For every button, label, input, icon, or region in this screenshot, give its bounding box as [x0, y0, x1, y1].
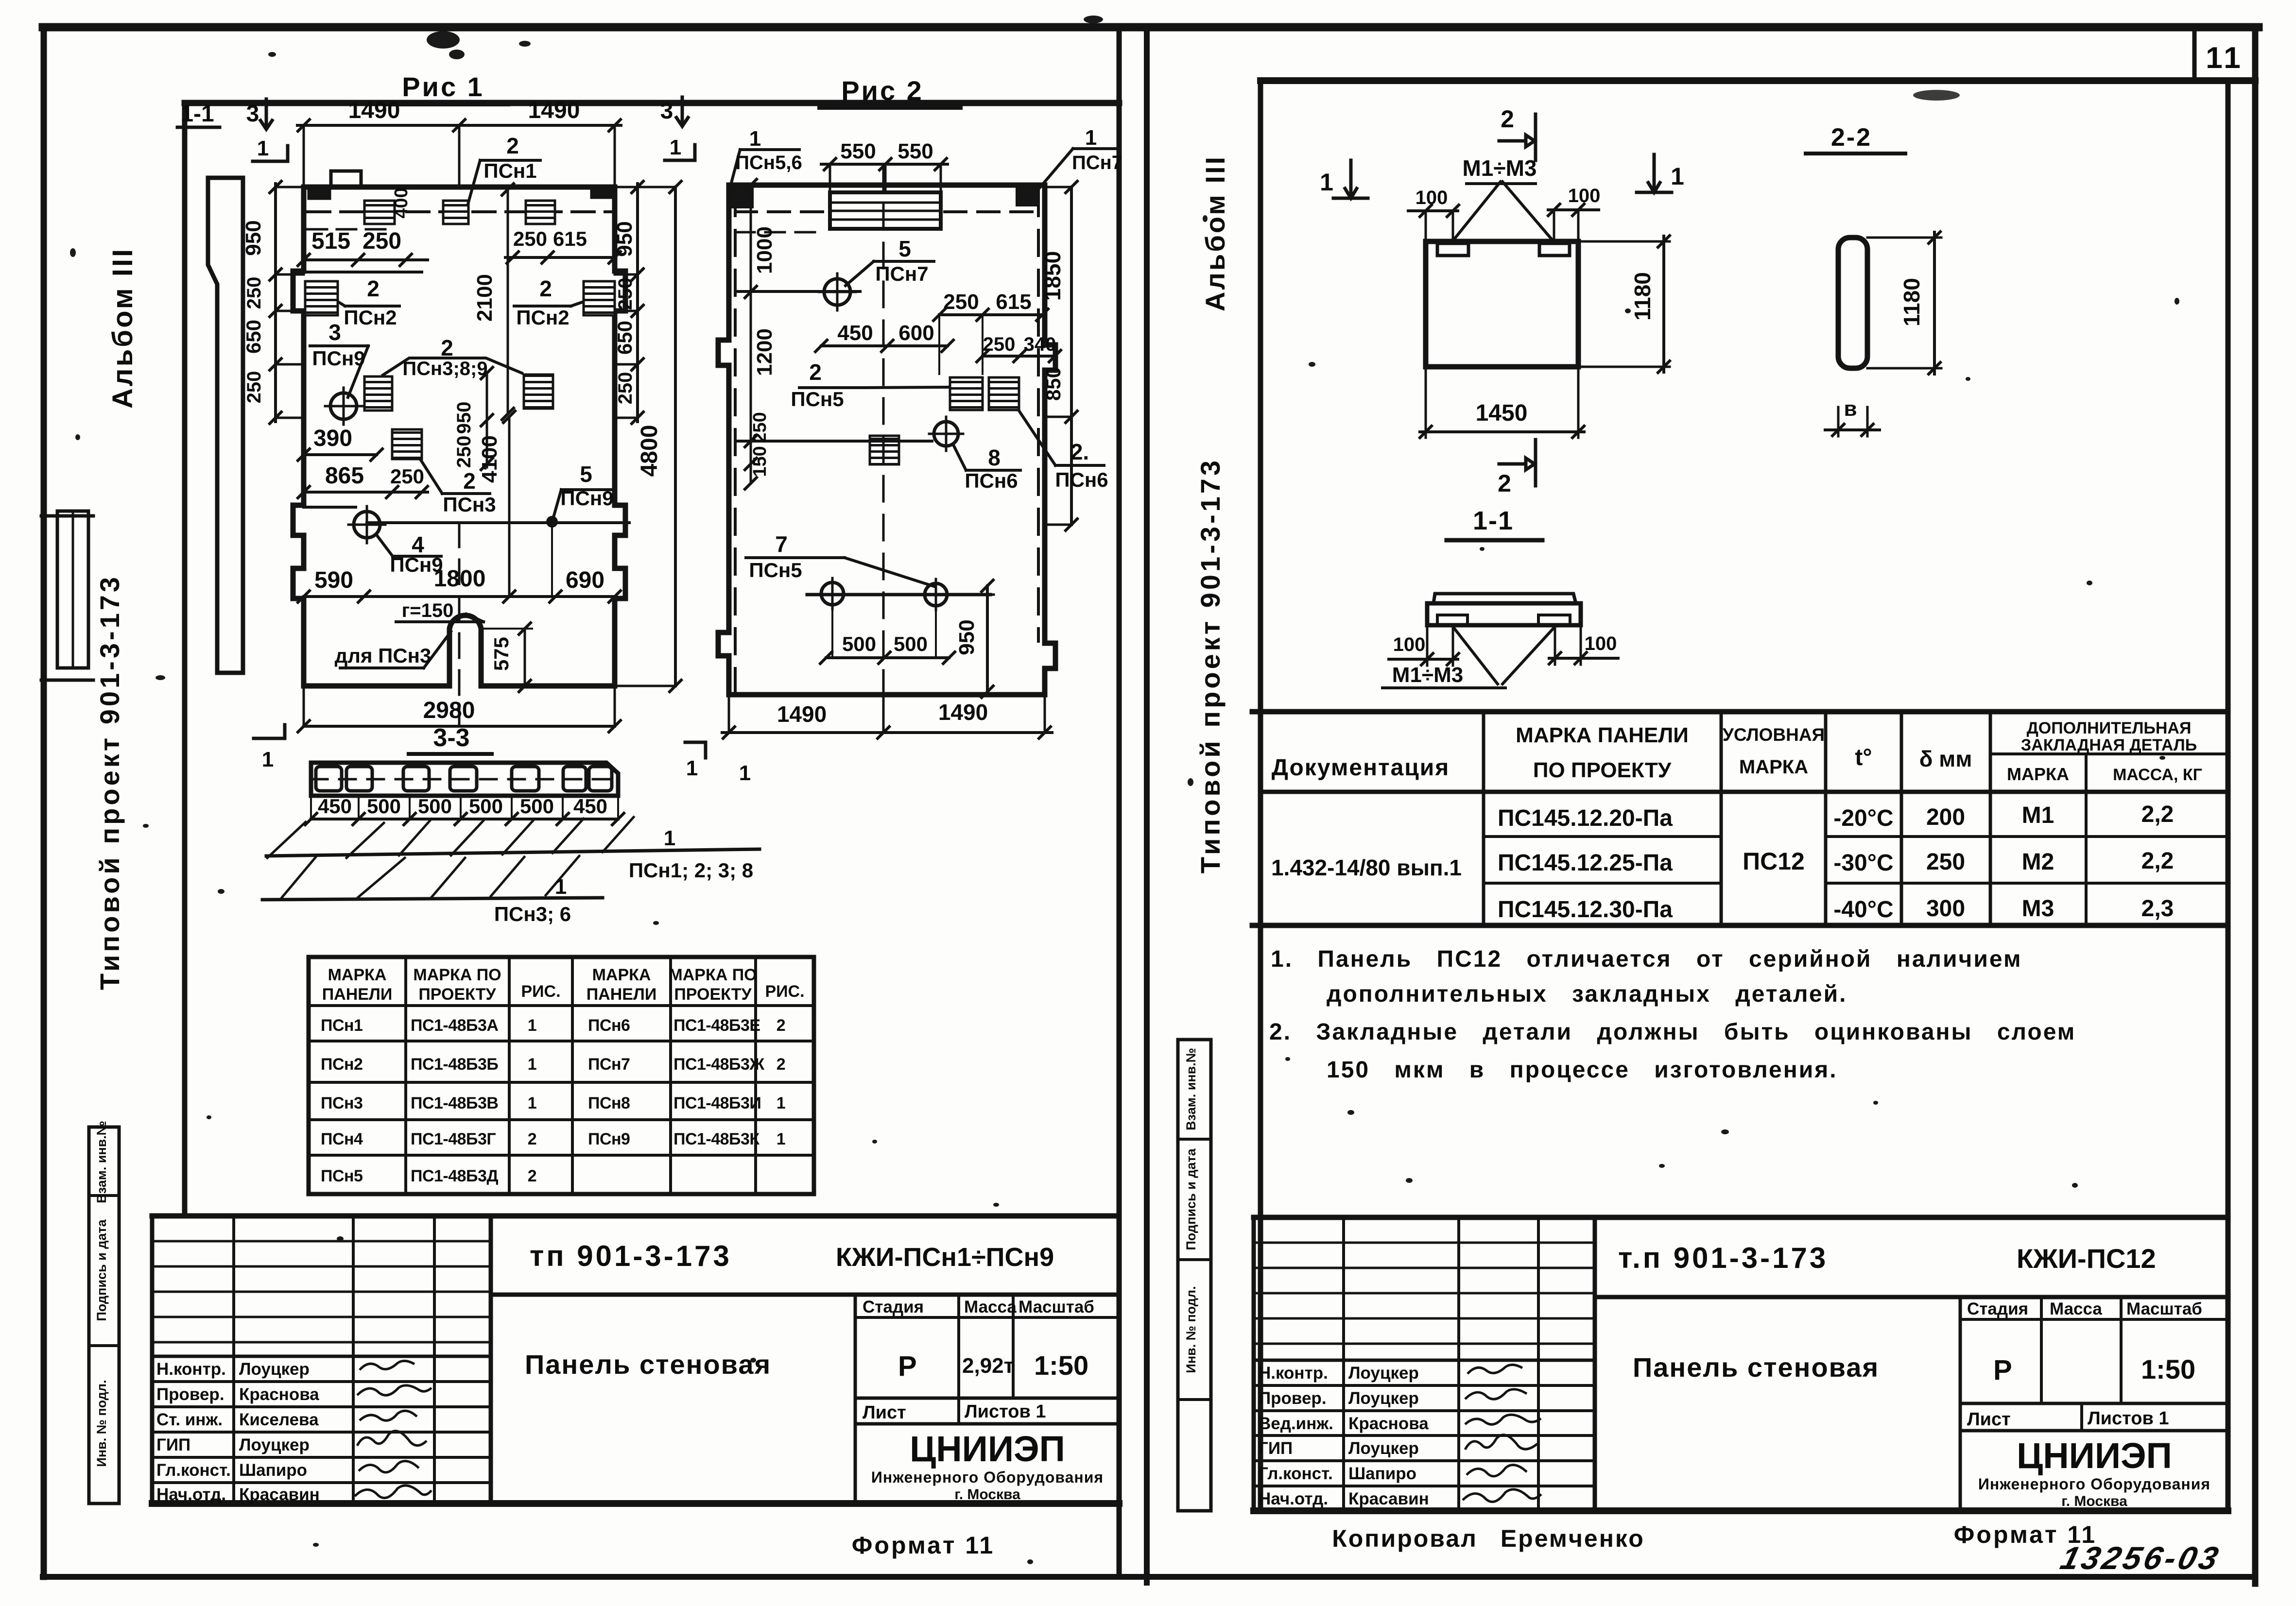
- svg-text:т.п 901-3-173: т.п 901-3-173: [1618, 1242, 1828, 1274]
- names rows upper: [152, 1241, 491, 1342]
- dim 1450 bottom: [1426, 367, 1578, 438]
- right dim chain 950/250/650/250: [636, 184, 639, 422]
- leader line through panel: [367, 521, 629, 524]
- interior step line lower: [304, 506, 356, 509]
- svg-text:250: 250: [615, 278, 636, 310]
- svg-text:1-1: 1-1: [180, 101, 214, 127]
- svg-text:Листов 1: Листов 1: [965, 1401, 1046, 1422]
- svg-text:Н.контр.: Н.контр.: [1259, 1364, 1328, 1383]
- svg-text:МАРКА: МАРКА: [592, 966, 651, 984]
- rtb лист band: [1960, 1429, 2228, 1433]
- svg-text:3: 3: [660, 98, 673, 124]
- svg-text:ПСн2: ПСн2: [321, 1055, 363, 1074]
- svg-text:250: 250: [750, 412, 770, 443]
- svg-text:Лоуцкер: Лоуцкер: [1348, 1439, 1419, 1458]
- svg-text:ПС1-48Б3А: ПС1-48Б3А: [411, 1016, 498, 1035]
- svg-text:1: 1: [670, 136, 681, 159]
- svg-text:ДОПОЛНИТЕЛЬНАЯ: ДОПОЛНИТЕЛЬНАЯ: [2027, 719, 2192, 737]
- svg-text:100: 100: [1393, 634, 1426, 655]
- svg-text:Инженерного Оборудования: Инженерного Оборудования: [1978, 1475, 2210, 1493]
- доп деталь subheader: [1990, 752, 2228, 755]
- svg-text:г=150: г=150: [402, 600, 454, 621]
- svg-text:2: 2: [1501, 105, 1514, 133]
- slab line 2: [262, 898, 603, 900]
- hollow cores: [316, 767, 342, 791]
- лист band: [855, 1422, 1119, 1426]
- row lines: [1484, 835, 2228, 838]
- circle lower left: [354, 512, 380, 538]
- svg-text:Провер.: Провер.: [1259, 1389, 1327, 1408]
- svg-text:ПС145.12.25-Па: ПС145.12.25-Па: [1498, 850, 1673, 876]
- svg-text:ПСн9: ПСн9: [312, 347, 365, 370]
- svg-text:Подпись и дата: Подпись и дата: [1184, 1148, 1198, 1250]
- svg-text:ПС1-48Б3Г: ПС1-48Б3Г: [411, 1130, 496, 1148]
- svg-text:ПСн7: ПСн7: [875, 262, 928, 285]
- svg-text:Масштаб: Масштаб: [1019, 1298, 1094, 1316]
- plate 1: [1437, 243, 1468, 256]
- svg-text:Масштаб: Масштаб: [2126, 1299, 2202, 1318]
- svg-text:дополнительных закладных: дополнительных закладных деталей.: [1327, 981, 1847, 1007]
- left interior dim chain: [750, 185, 752, 483]
- svg-text:ПСн3: ПСн3: [443, 493, 496, 516]
- dim 865/250: [304, 491, 428, 494]
- svg-text:Провер.: Провер.: [156, 1385, 224, 1404]
- svg-text:250: 250: [390, 465, 424, 488]
- svg-text:ПС1-48Б3Б: ПС1-48Б3Б: [411, 1055, 498, 1074]
- svg-text:200: 200: [1926, 804, 1965, 830]
- svg-text:ПСн3; 6: ПСн3; 6: [494, 903, 571, 925]
- 2-2 strip body: [1838, 238, 1867, 368]
- svg-text:МАРКА: МАРКА: [2007, 764, 2069, 784]
- svg-text:450: 450: [837, 321, 873, 345]
- inventory number handwritten: [2057, 1540, 2225, 1576]
- svg-text:500: 500: [894, 632, 928, 655]
- svg-text:МАРКА: МАРКА: [1739, 756, 1808, 778]
- svg-text:1: 1: [749, 127, 761, 151]
- embedded plate right edge: [584, 281, 615, 315]
- page number box line: [2192, 30, 2197, 81]
- svg-text:ПС145.12.20-Па: ПС145.12.20-Па: [1498, 805, 1673, 831]
- рис 1 title underline: [385, 103, 508, 106]
- svg-text:8: 8: [988, 445, 1001, 470]
- svg-text:ПСн6: ПСн6: [588, 1016, 630, 1035]
- svg-text:Красавин: Красавин: [1348, 1489, 1429, 1508]
- dim 1180 right: [1578, 241, 1670, 367]
- dim 250/615: [939, 313, 1042, 316]
- svg-text:950: 950: [453, 402, 475, 434]
- svg-text:2: 2: [777, 1016, 785, 1035]
- svg-text:250: 250: [1926, 849, 1965, 875]
- fold mark upper: [41, 514, 93, 518]
- svg-text:515: 515: [311, 228, 350, 254]
- dim 515/250 line: [304, 258, 428, 261]
- embedded plate left edge: [305, 281, 338, 315]
- 2100 dim line: [507, 189, 509, 414]
- interior step line upper: [304, 271, 422, 273]
- callout 2 ПСн5 leader: [799, 387, 948, 388]
- dim 550/550: [821, 163, 948, 166]
- panel 1 outline: [293, 187, 625, 686]
- svg-text:Лоуцкер: Лоуцкер: [239, 1360, 310, 1379]
- right dim chain 1850/850: [1070, 187, 1073, 525]
- svg-text:ПСн3;8;9: ПСн3;8;9: [402, 358, 487, 379]
- center dashed axis fig2: [882, 165, 885, 729]
- corner block left: [309, 188, 330, 199]
- svg-text:Нач.отд.: Нач.отд.: [156, 1485, 226, 1504]
- anchor dot: [546, 516, 558, 528]
- svg-text:δ мм: δ мм: [1919, 746, 1972, 771]
- svg-text:2: 2: [441, 335, 453, 360]
- svg-text:1180: 1180: [1630, 272, 1655, 321]
- center dashed axis: [458, 523, 461, 726]
- svg-text:Краснова: Краснова: [1348, 1414, 1429, 1433]
- svg-text:7: 7: [775, 531, 788, 557]
- svg-text:600: 600: [898, 321, 934, 345]
- callout 7 ПСн5 leader: [746, 558, 934, 586]
- svg-text:МАРКА ПО: МАРКА ПО: [669, 966, 757, 984]
- svg-text:г. Москва: г. Москва: [2061, 1493, 2127, 1509]
- svg-text:1: 1: [686, 756, 698, 780]
- svg-text:400: 400: [391, 188, 412, 218]
- fold mark lower: [41, 679, 93, 682]
- lower-left plate: [870, 436, 899, 464]
- svg-text:Рис 1: Рис 1: [402, 71, 484, 102]
- signatures left sheet: [360, 1361, 414, 1370]
- стадия section: [854, 1295, 857, 1424]
- svg-text:Взам. инв.№: Взам. инв.№: [1184, 1048, 1198, 1130]
- svg-text:2980: 2980: [423, 698, 475, 723]
- 1-1 leaders: [1453, 627, 1555, 684]
- svg-text:Лоуцкер: Лоуцкер: [1348, 1389, 1419, 1408]
- embedded plate R1C3: [526, 201, 555, 224]
- rtb names rows: [1254, 1359, 1595, 1362]
- svg-text:2: 2: [809, 359, 822, 385]
- svg-text:ПСн5,6: ПСн5,6: [735, 152, 802, 173]
- svg-text:1200: 1200: [753, 328, 777, 376]
- svg-text:Стадия: Стадия: [1967, 1299, 2028, 1318]
- callout 5 ПСн9 leader: [553, 490, 611, 519]
- svg-text:Р: Р: [898, 1350, 917, 1382]
- section 3-3 underline: [409, 752, 492, 756]
- callout 2. ПСн6 leader: [1019, 411, 1104, 465]
- corner chunk right: [1017, 187, 1038, 205]
- svg-text:ПАНЕЛИ: ПАНЕЛИ: [587, 985, 657, 1004]
- svg-text:Листов 1: Листов 1: [2088, 1408, 2169, 1429]
- marker 1 flag left: [253, 146, 288, 161]
- svg-text:1800: 1800: [434, 566, 486, 592]
- mid plates: [950, 377, 983, 410]
- svg-text:ПС1-48Б3Е: ПС1-48Б3Е: [673, 1016, 760, 1035]
- svg-text:Гл.конст.: Гл.конст.: [1259, 1464, 1333, 1483]
- callout 2 ПСн2 right leader: [514, 302, 582, 306]
- line through lower area: [735, 440, 932, 443]
- top dim line 1490+1490: [297, 124, 621, 127]
- svg-text:1. Панель ПС12 отличается от: 1. Панель ПС12 отличается от серийной на…: [1271, 946, 2022, 972]
- svg-text:ПСн5: ПСн5: [791, 388, 844, 410]
- slab hatch band A: [267, 817, 634, 858]
- svg-text:ПСн9: ПСн9: [588, 1130, 630, 1148]
- svg-text:Панель стеновая: Панель стеновая: [1633, 1352, 1879, 1383]
- callout 4 ПСн9 leader: [376, 534, 441, 556]
- svg-text:4800: 4800: [637, 425, 662, 477]
- svg-text:ЦНИИЭП: ЦНИИЭП: [2017, 1435, 2172, 1476]
- svg-text:2: 2: [777, 1055, 785, 1074]
- svg-text:Инв. № подл.: Инв. № подл.: [1184, 1286, 1198, 1373]
- м1-м3 underline 1-1: [1382, 686, 1505, 689]
- svg-text:1: 1: [257, 137, 269, 160]
- svg-text:Альбом III: Альбом III: [107, 247, 138, 409]
- right sheet outer right border: [2252, 27, 2259, 1584]
- svg-text:КЖИ-ПСн1÷ПСн9: КЖИ-ПСн1÷ПСн9: [836, 1243, 1054, 1272]
- svg-text:500: 500: [520, 795, 554, 818]
- svg-text:Формат 11: Формат 11: [852, 1532, 995, 1559]
- м1-м3 leaders: [1452, 182, 1554, 242]
- svg-text:1000: 1000: [753, 226, 777, 274]
- svg-text:РИС.: РИС.: [521, 982, 560, 1001]
- top paper border line: [43, 23, 2259, 32]
- svg-text:ПС12: ПС12: [1743, 848, 1805, 875]
- svg-text:500: 500: [842, 632, 876, 655]
- circle with cross: [330, 393, 357, 419]
- line through bottom circles: [807, 593, 990, 597]
- dim 4100: [508, 417, 511, 597]
- mid plate right: [524, 375, 553, 409]
- svg-text:150 мкм в процессе изго: 150 мкм в процессе изготовления.: [1327, 1057, 1838, 1083]
- rtb цнииэп cell: [1959, 1431, 1962, 1511]
- svg-text:М1÷М3: М1÷М3: [1392, 663, 1463, 687]
- svg-text:250: 250: [243, 277, 265, 309]
- svg-text:Стадия: Стадия: [863, 1298, 924, 1316]
- bottom dim 1490/1490: [722, 731, 1052, 734]
- svg-text:1490: 1490: [777, 701, 827, 727]
- left paper border: [41, 27, 47, 1577]
- embedded plate R1C1: [364, 201, 395, 224]
- right table frame: [1252, 709, 2228, 715]
- dashed course lines: [735, 210, 1037, 213]
- svg-text:250: 250: [453, 436, 475, 468]
- svg-text:Взам. инв.№: Взам. инв.№: [94, 1121, 109, 1203]
- svg-text:ПСн8: ПСн8: [588, 1094, 630, 1112]
- embedded plate R1C2: [443, 201, 468, 224]
- svg-text:690: 690: [566, 567, 604, 593]
- svg-text:250: 250: [943, 290, 979, 314]
- svg-text:ГИП: ГИП: [156, 1435, 190, 1454]
- bottom paper border line: [43, 1574, 2255, 1580]
- section 1-1 underline: [1447, 538, 1542, 543]
- для ПСн3 leader: [340, 632, 451, 668]
- svg-text:550: 550: [898, 139, 933, 163]
- mark table verticals: [406, 957, 756, 1194]
- svg-text:2-2: 2-2: [1831, 123, 1872, 152]
- inner dashed edge left: [734, 190, 737, 692]
- callout 8 ПСн6 leader: [953, 445, 1020, 470]
- svg-text:Киселева: Киселева: [239, 1410, 319, 1429]
- svg-text:Шапиро: Шапиро: [239, 1461, 307, 1480]
- dim 500/500: [826, 656, 949, 659]
- svg-text:ПСн5: ПСн5: [749, 559, 802, 581]
- left sheet right border: [1117, 27, 1122, 1577]
- lintel block: [830, 192, 941, 229]
- section 2-2 underline: [1806, 152, 1905, 155]
- svg-text:250: 250: [243, 371, 265, 404]
- svg-text:100: 100: [1585, 633, 1617, 654]
- svg-text:550: 550: [840, 139, 876, 163]
- right table verticals: [1484, 712, 1990, 925]
- svg-text:ГИП: ГИП: [1259, 1439, 1293, 1458]
- рис 2 underline: [819, 106, 961, 110]
- dim 250/615 right line: [505, 256, 615, 259]
- svg-text:КЖИ-ПС12: КЖИ-ПС12: [2017, 1243, 2156, 1274]
- svg-text:1450: 1450: [1476, 400, 1528, 426]
- svg-text:Гл.конст.: Гл.конст.: [156, 1461, 231, 1480]
- callout 3 ПСн9 leader: [310, 346, 368, 397]
- svg-text:150: 150: [750, 446, 770, 477]
- svg-text:3-3: 3-3: [433, 724, 469, 752]
- svg-text:300: 300: [1926, 896, 1965, 922]
- right sheet inner frame top: [1260, 77, 2255, 84]
- svg-text:1: 1: [1320, 169, 1333, 196]
- 1-1 plates: [1437, 615, 1467, 625]
- svg-text:Альбом III: Альбом III: [1200, 155, 1230, 311]
- svg-text:Типовой проект 901-3-173: Типовой проект 901-3-173: [1195, 458, 1226, 873]
- svg-text:ПСн5: ПСн5: [321, 1167, 363, 1185]
- line through circle 1: [735, 290, 860, 293]
- svg-text:ПС1-48Б3И: ПС1-48Б3И: [673, 1094, 761, 1112]
- left sheet inner frame top: [185, 100, 1119, 106]
- callout 2 ПСн3;8;9 bracket: [383, 358, 522, 375]
- row1 bottom: [491, 1293, 1119, 1297]
- svg-text:ПСн1: ПСн1: [483, 159, 536, 182]
- svg-text:2.: 2.: [1070, 439, 1089, 464]
- svg-text:1: 1: [739, 761, 751, 785]
- svg-text:575: 575: [490, 637, 513, 671]
- svg-text:МАССА, КГ: МАССА, КГ: [2113, 766, 2202, 784]
- section bar: [311, 763, 618, 796]
- flag 1 left of bar: [254, 725, 285, 738]
- svg-text:г. Москва: г. Москва: [954, 1486, 1020, 1503]
- svg-text:ПСн4: ПСн4: [321, 1130, 363, 1148]
- svg-text:11: 11: [2206, 41, 2244, 75]
- svg-text:Р: Р: [1993, 1354, 2012, 1386]
- svg-text:1: 1: [664, 826, 675, 850]
- svg-text:ПСн2: ПСн2: [344, 306, 397, 329]
- svg-text:2100: 2100: [473, 274, 497, 322]
- svg-text:ПРОЕКТУ: ПРОЕКТУ: [674, 985, 752, 1004]
- left sheet inner frame left: [182, 103, 188, 1216]
- svg-text:-40°С: -40°С: [1833, 897, 1893, 923]
- names rows: [152, 1355, 491, 1358]
- marker 3 arrow left: [260, 99, 272, 129]
- svg-text:Н.контр.: Н.контр.: [156, 1360, 226, 1379]
- svg-text:Панель стеновая: Панель стеновая: [525, 1349, 771, 1380]
- 1-1 body: [1427, 603, 1581, 625]
- plan rectangle: [1426, 241, 1578, 367]
- svg-text:2: 2: [528, 1130, 536, 1148]
- svg-text:500: 500: [418, 795, 452, 818]
- rtb names columns: [1344, 1217, 1538, 1511]
- callout 2 ПСн3 leader: [421, 460, 490, 494]
- svg-text:ПСн7: ПСн7: [588, 1055, 630, 1074]
- rtb signatures: [1467, 1365, 1522, 1374]
- marker 1 flag (between figures): [665, 145, 695, 160]
- svg-text:-30°С: -30°С: [1833, 850, 1893, 876]
- svg-text:950: 950: [242, 220, 265, 256]
- svg-text:1: 1: [528, 1094, 536, 1112]
- svg-text:2: 2: [539, 276, 552, 301]
- svg-text:1: 1: [777, 1094, 785, 1112]
- dim 100 right: [1548, 208, 1599, 211]
- svg-text:Вед.инж.: Вед.инж.: [1259, 1414, 1333, 1433]
- dim 100 left 1-1: [1389, 658, 1458, 661]
- small protruding box above top edge: [331, 171, 361, 187]
- svg-text:М3: М3: [2022, 896, 2054, 922]
- г=150 loop label leader: [396, 614, 483, 622]
- svg-text:3: 3: [246, 101, 259, 127]
- svg-text:650: 650: [613, 321, 636, 355]
- svg-text:-20°С: -20°С: [1833, 805, 1893, 831]
- svg-text:М1: М1: [2022, 803, 2054, 828]
- svg-text:Масса: Масса: [2050, 1299, 2102, 1318]
- rtb names upper rows: [1254, 1243, 1595, 1344]
- callout 2 ПСн2 left leader: [339, 302, 399, 306]
- dim 100 left: [1408, 209, 1458, 212]
- svg-text:тп 901-3-173: тп 901-3-173: [530, 1240, 732, 1272]
- dim 250/340: [983, 355, 1055, 358]
- svg-text:t°: t°: [1855, 745, 1872, 770]
- dim 2980: [304, 725, 615, 728]
- svg-text:ПО ПРОЕКТУ: ПО ПРОЕКТУ: [1533, 758, 1672, 782]
- svg-text:в: в: [1844, 397, 1857, 421]
- svg-text:13256-03: 13256-03: [2057, 1540, 2225, 1576]
- svg-text:МАРКА ПАНЕЛИ: МАРКА ПАНЕЛИ: [1516, 723, 1689, 747]
- 4800 dim line: [674, 187, 677, 686]
- marker 1 right: [1637, 154, 1672, 192]
- title block frame: [152, 1213, 1119, 1219]
- slab hatch band B: [281, 856, 579, 899]
- svg-text:1:50: 1:50: [2141, 1354, 2195, 1384]
- svg-text:1-1: 1-1: [1473, 506, 1514, 535]
- svg-text:1: 1: [1671, 163, 1684, 190]
- svg-text:4100: 4100: [478, 435, 501, 483]
- inner dashed edge right: [1037, 190, 1040, 641]
- svg-text:250: 250: [363, 228, 401, 254]
- right margin stamp boxes: [1178, 1040, 1211, 1511]
- 1-1 top slab: [1433, 594, 1576, 603]
- svg-text:Подпись и дата: Подпись и дата: [94, 1219, 109, 1321]
- svg-text:Красавин: Красавин: [239, 1485, 320, 1504]
- svg-text:ПСн6: ПСн6: [1055, 468, 1108, 491]
- svg-text:Лоуцкер: Лоуцкер: [1348, 1364, 1419, 1383]
- svg-text:ПСн1; 2; 3; 8: ПСн1; 2; 3; 8: [629, 859, 753, 882]
- mid plate left: [364, 376, 392, 410]
- svg-text:ПАНЕЛИ: ПАНЕЛИ: [322, 985, 393, 1004]
- svg-text:Лоуцкер: Лоуцкер: [239, 1435, 310, 1454]
- svg-text:ПСн6: ПСн6: [965, 469, 1018, 492]
- svg-text:УСЛОВНАЯ: УСЛОВНАЯ: [1723, 725, 1825, 745]
- left dim chain 950/250/650/250: [274, 184, 277, 422]
- svg-text:Документация: Документация: [1272, 755, 1450, 781]
- svg-text:Рис 2: Рис 2: [841, 75, 924, 106]
- svg-text:1180: 1180: [1899, 278, 1924, 326]
- mark table horizontals: [309, 1006, 814, 1155]
- slab line 1: [266, 849, 760, 856]
- svg-text:1: 1: [528, 1016, 536, 1035]
- corner block right: [591, 188, 613, 198]
- dim 590/1800/690: [304, 595, 615, 598]
- svg-text:МАРКА: МАРКА: [328, 966, 387, 984]
- РИС 1 texts: [180, 71, 662, 723]
- svg-text:М1÷М3: М1÷М3: [1462, 155, 1536, 181]
